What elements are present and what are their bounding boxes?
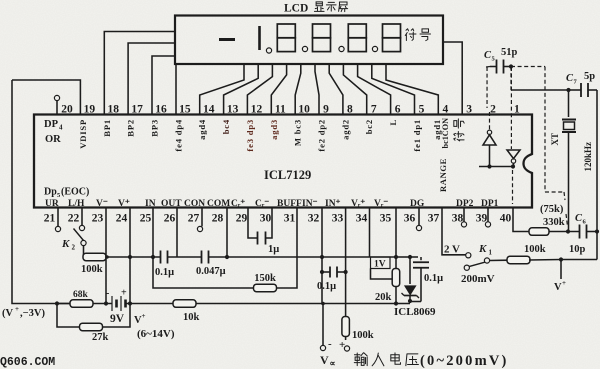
wire pin 32 down (321, 208, 323, 304)
svg-text:37: 37 (428, 213, 440, 225)
svg-text:120kHz: 120kHz (583, 142, 593, 172)
svg-text:1: 1 (514, 104, 520, 116)
svg-text:24: 24 (116, 213, 128, 225)
svg-text:BP3: BP3 (150, 119, 160, 137)
svg-text:BUFF: BUFF (277, 199, 302, 209)
svg-text:IN⁻: IN⁻ (302, 199, 318, 209)
svg-text:(V: (V (2, 308, 13, 319)
junction crystal bottom (566, 229, 570, 233)
wire LCD fan to pin 8 (329, 64, 343, 115)
wire LCD left stub to pin 17 (128, 43, 175, 115)
svg-text:29: 29 (236, 213, 248, 225)
svg-text:IN⁺: IN⁺ (325, 199, 341, 209)
svg-text:2: 2 (72, 244, 76, 252)
switch K2 blade (74, 229, 84, 241)
svg-text:fe3 dp3: fe3 dp3 (245, 119, 255, 152)
svg-text:100k: 100k (352, 330, 374, 341)
junction V-,-3V node (55, 301, 59, 305)
wire LCD fan to pin 6 (358, 64, 391, 115)
wire 27k to V+ (103, 304, 130, 328)
LCD decimal point 1 (266, 48, 271, 53)
svg-text:K: K (478, 243, 487, 255)
svg-text:100k: 100k (81, 264, 103, 275)
junction right rail C6 (595, 229, 599, 233)
junction pin28 bus (225, 255, 229, 259)
capacitor C7 5p (580, 83, 582, 97)
wire left rail to V+,-3V node (12, 80, 57, 304)
svg-text:agd3: agd3 (269, 119, 279, 140)
resistor 100k (pin23) (84, 256, 107, 258)
wire rail to 10k (130, 303, 173, 305)
junction pin32 cap (320, 270, 324, 274)
resistor 27k (80, 323, 103, 331)
svg-text:23: 23 (92, 213, 104, 225)
pin 3 signal label 符号 rotated (454, 131, 464, 140)
resistor 68k (57, 303, 70, 305)
battery 9V plates (111, 296, 113, 311)
resistor 10k (173, 300, 196, 308)
svg-text:68k: 68k (73, 290, 89, 300)
switch K2 fixed contact (79, 225, 84, 230)
wire LCD right stub to pin 3 (443, 42, 462, 115)
svg-text:40: 40 (500, 213, 512, 225)
wire pin 19 VDISP up and left (12, 80, 80, 115)
svg-text:RANGE: RANGE (438, 158, 448, 192)
terminal circle Vin minus (322, 304, 324, 346)
svg-text:+: + (339, 339, 345, 351)
dash-dot wire C5 left to pin 2 (486, 66, 490, 69)
svg-text:M bc3: M bc3 (293, 119, 303, 146)
svg-text:(6~14V): (6~14V) (137, 328, 175, 340)
wire LCD fan to pin 7 (343, 64, 366, 115)
wire 20k bottom (395, 287, 397, 304)
svg-text:1: 1 (489, 249, 493, 257)
junction pin23 bus (105, 255, 109, 259)
wire right rail (596, 90, 598, 260)
wire 27k loop (57, 304, 79, 328)
LCD seven-segment digit 8 number 1 (277, 24, 295, 38)
junction V- rail pin23 (104, 301, 108, 305)
junction 20k bottom (394, 301, 398, 305)
wire 100k to V+ node (529, 259, 561, 262)
svg-text:27k: 27k (92, 332, 109, 343)
annotation box 1V (371, 257, 391, 269)
svg-text:0.047μ: 0.047μ (196, 266, 226, 277)
LCD digit one segment (258, 26, 261, 50)
svg-text:OUT: OUT (161, 199, 182, 209)
junction pin33 cap (344, 270, 348, 274)
switch K2 moving contact (81, 240, 86, 245)
svg-text:2 V: 2 V (444, 244, 460, 256)
wire zener top (409, 257, 411, 284)
LCD minus sign segment (219, 38, 235, 41)
terminal circle pin 21 (55, 226, 60, 231)
svg-text:+: + (121, 288, 127, 299)
resistor 100k (K1) (507, 256, 530, 264)
capacitor 1u (257, 232, 259, 245)
svg-text:31: 31 (284, 213, 296, 225)
LCD decimal point 4 (372, 46, 377, 51)
svg-text:-: - (106, 288, 109, 299)
wire bus segment D (322, 256, 396, 258)
terminal circle Vin plus (344, 346, 349, 351)
svg-text:0.1μ: 0.1μ (155, 267, 174, 278)
wire pin 40 to 330k (513, 208, 529, 232)
wire rail to cap end (396, 303, 410, 305)
resistor 330k (529, 228, 549, 236)
wire rail battery minus (57, 303, 112, 305)
svg-text:32: 32 (308, 213, 320, 225)
svg-text:ICL8069: ICL8069 (394, 306, 436, 318)
svg-text:28: 28 (212, 213, 224, 225)
dash-dot wire pin 2 to A1 (486, 67, 488, 108)
svg-text:1V: 1V (374, 260, 386, 270)
wire pin 21 stub (57, 208, 59, 227)
wire bus segment A (130, 256, 161, 258)
svg-text:20: 20 (61, 104, 73, 116)
svg-text:UR: UR (45, 199, 59, 209)
wire pin 26 stub (176, 208, 178, 258)
svg-text:Cᵣ⁺: Cᵣ⁺ (231, 199, 245, 209)
wire pin 30 bracket (266, 208, 272, 239)
zener diode ICL8069 (405, 286, 416, 295)
svg-text:∝: ∝ (330, 358, 336, 368)
label input voltage 输入电压 0-200mV (354, 353, 367, 366)
svg-text:Cᵣ⁻: Cᵣ⁻ (255, 199, 269, 209)
svg-text:DP2: DP2 (456, 199, 474, 209)
svg-text:17: 17 (131, 104, 143, 116)
LCD seven-segment digit 8 number 2 (313, 24, 331, 38)
junction battery plus (128, 301, 132, 305)
capacitor 0.1u (ref) (420, 257, 422, 260)
crystal XT (562, 119, 576, 121)
svg-text:21: 21 (44, 213, 56, 225)
IC U1 ICL7129 package outline (34, 115, 532, 208)
junction crystal top (566, 88, 570, 92)
svg-text:Vᵣ⁺: Vᵣ⁺ (351, 199, 365, 209)
svg-text:agd4: agd4 (197, 119, 207, 140)
wire pin 27 stub (201, 208, 203, 227)
LCD seven-segment digit 8 number 4 (383, 24, 401, 38)
svg-text:VDISP: VDISP (78, 119, 88, 149)
junction Vin minus rail (321, 302, 325, 306)
wire pin 34 down (369, 208, 371, 258)
wire V+ node to right rail (561, 259, 597, 261)
wire LCD corner down to pin 15 (175, 64, 177, 115)
switch K1 pivot contact (484, 258, 489, 263)
resistor 150k (254, 284, 277, 292)
wire battery plus to junction (126, 303, 131, 305)
wire LCD left stub to pin 16 (152, 56, 175, 115)
svg-text:XT: XT (550, 133, 560, 146)
svg-text:LCD: LCD (284, 3, 308, 15)
svg-text:bc2: bc2 (364, 119, 374, 134)
svg-text:-: - (328, 338, 332, 350)
svg-text:Q606.COM: Q606.COM (0, 356, 55, 369)
wire pin 36 stub (418, 208, 420, 226)
svg-text:9V: 9V (110, 313, 125, 325)
LCD decimal point 3 (339, 46, 344, 51)
svg-text:fe1 dp1: fe1 dp1 (412, 119, 422, 152)
wire LCD fan to pin 4 (386, 64, 438, 115)
svg-text:35: 35 (380, 213, 392, 225)
capacitor C6 10p (579, 225, 581, 239)
wire pin 38 stub (463, 208, 465, 222)
svg-text:,−3V): ,−3V) (20, 308, 45, 319)
wire bus segment F (410, 256, 418, 258)
svg-text:12: 12 (251, 104, 263, 116)
svg-text:OR: OR (45, 134, 61, 145)
wire pin 23 down to battery minus (105, 208, 107, 304)
svg-text:13: 13 (227, 104, 239, 116)
wire bus segment B (168, 256, 202, 258)
capacitor 0.047u (pins26-28) (201, 251, 203, 264)
svg-text:14: 14 (203, 104, 215, 116)
LCD sign annunciator 符号 (405, 29, 416, 41)
svg-text:27: 27 (188, 213, 200, 225)
svg-text:9: 9 (323, 104, 329, 116)
svg-text:10: 10 (298, 104, 310, 116)
svg-text:+: + (142, 312, 146, 320)
svg-text:K: K (61, 238, 70, 250)
dash-dot wire C5 to line (510, 67, 512, 91)
wire 330k to C6 (549, 231, 579, 233)
svg-text:7: 7 (371, 104, 377, 116)
svg-text:200mV: 200mV (461, 273, 495, 285)
svg-text:Vᵣ⁻: Vᵣ⁻ (374, 199, 388, 209)
wire 150k to pin 31 (276, 208, 297, 289)
junction C5 right (509, 64, 513, 68)
wire pin 24 down (129, 208, 131, 304)
svg-text:100k: 100k (524, 244, 546, 255)
switch K1 blade (469, 262, 485, 266)
comparator A2 triangle down (507, 150, 520, 159)
terminal circle at pin 20 (56, 101, 58, 115)
wire rail to 20k bottom (323, 303, 396, 305)
junction zener top (408, 255, 412, 259)
svg-text:330k: 330k (543, 217, 565, 228)
svg-text:3: 3 (466, 104, 472, 116)
svg-text:16: 16 (155, 104, 167, 116)
svg-text:(EOC): (EOC) (61, 187, 89, 198)
wire bus segment C (209, 256, 323, 258)
svg-text:51p: 51p (501, 47, 518, 58)
svg-text:Dp: Dp (44, 187, 57, 198)
wire C7 left (569, 89, 582, 91)
annotation leader 1V (371, 269, 394, 280)
wire osc line (511, 89, 569, 91)
wire LCD fan to pin 13 (224, 64, 259, 115)
junction pin25 bus (151, 255, 155, 259)
wire pin25 down to 150k line (153, 257, 254, 288)
wire 20k top (395, 257, 397, 269)
wire crystal bottom lead (568, 132, 570, 232)
wire LCD fan to pin 14 (200, 64, 244, 115)
resistor 100k vertical (342, 317, 350, 337)
svg-text:33: 33 (332, 213, 344, 225)
junction pin32 bus (320, 255, 324, 259)
wire zener bottom (409, 296, 411, 302)
svg-text:20k: 20k (375, 292, 392, 303)
svg-text:L: L (388, 119, 398, 126)
capacitor 0.1u (pins25-26) (160, 251, 162, 264)
svg-text:1μ: 1μ (268, 244, 279, 255)
junction pin24 bus (128, 255, 132, 259)
buffer A1 triangle up (487, 130, 491, 134)
svg-text:ICL7129: ICL7129 (264, 168, 311, 182)
svg-text:4: 4 (442, 104, 448, 116)
svg-text:fe4 dp4: fe4 dp4 (173, 119, 183, 152)
svg-text:bc4: bc4 (221, 119, 231, 134)
svg-text:IN: IN (145, 199, 156, 209)
svg-text:DP: DP (44, 119, 59, 130)
svg-text:0.1μ: 0.1μ (424, 273, 443, 284)
wire V+ arrow (560, 260, 562, 280)
dash-dot wire below A2 (512, 170, 514, 204)
wire C6 to right rail (587, 231, 598, 233)
svg-text:0.1μ: 0.1μ (317, 281, 336, 292)
switch K1 contact 200mV (464, 265, 469, 270)
wire LCD fan to pin 12 (247, 64, 272, 115)
svg-text:5p: 5p (584, 71, 595, 82)
wire pin 28 stub (226, 208, 228, 258)
dash-dot wire pin 1 to A2 (510, 67, 512, 149)
capacitor C5 51p (490, 66, 497, 68)
junction V+ node (559, 257, 563, 261)
svg-text:DP1: DP1 (481, 199, 499, 209)
capacitor 0.1u (pins32-33) (322, 271, 330, 273)
wire pin 29 bracket (248, 208, 257, 239)
LCD seven-segment digit 8 number 3 (348, 24, 366, 38)
svg-text:25: 25 (140, 213, 152, 225)
wire LCD fan to pin 5 (372, 64, 415, 115)
svg-text:+: + (15, 305, 19, 313)
LCD display panel box (175, 16, 443, 65)
terminal circle pin 27 (197, 226, 202, 231)
svg-text:34: 34 (356, 213, 368, 225)
svg-text:V: V (320, 353, 329, 367)
wire LCD fan to pin 9 (315, 64, 319, 115)
svg-text:(0~200mV): (0~200mV) (420, 353, 509, 369)
wire LCD fan to pin 11 (271, 64, 286, 115)
svg-text:36: 36 (404, 213, 416, 225)
svg-text:6: 6 (395, 104, 401, 116)
svg-text:10k: 10k (183, 312, 200, 323)
wire K1 to 100k (490, 259, 508, 261)
wire bus segment E (396, 256, 410, 258)
svg-text:19: 19 (84, 104, 96, 116)
svg-text:22: 22 (68, 213, 80, 225)
svg-text:2: 2 (490, 104, 496, 116)
svg-text:10p: 10p (569, 244, 586, 255)
svg-text:V⁺: V⁺ (118, 199, 130, 209)
svg-text:agd2: agd2 (340, 119, 350, 140)
svg-text:11: 11 (275, 104, 286, 116)
svg-text:15: 15 (179, 104, 191, 116)
dashed wire C5 to 75k (511, 66, 545, 68)
LCD decimal point 2 (302, 46, 307, 51)
svg-text:30: 30 (260, 213, 272, 225)
svg-text:DG: DG (410, 199, 425, 209)
wire pin 25 stub (152, 208, 154, 258)
svg-text:bc1CON: bc1CON (441, 118, 450, 149)
svg-text:(75k): (75k) (540, 204, 564, 215)
resistor 20k (392, 269, 400, 287)
svg-text:+: + (562, 279, 566, 287)
svg-text:18: 18 (108, 104, 120, 116)
svg-text:4: 4 (59, 124, 63, 132)
wire K2 to resistor 100k (83, 246, 86, 257)
svg-text:5: 5 (419, 104, 425, 116)
wire A1-A2 common (479, 166, 514, 168)
terminal circle pin 39 (485, 222, 490, 227)
svg-text:150k: 150k (254, 273, 276, 284)
wire pin 35 down (395, 208, 397, 258)
wire pin 37 to 2V contact (442, 208, 466, 255)
wire pin 22 stub (81, 208, 83, 226)
wire pin 33 down (345, 208, 347, 341)
svg-text:26: 26 (164, 213, 176, 225)
wire rail 10k to Vin minus (196, 303, 323, 305)
svg-text:BP1: BP1 (102, 119, 112, 137)
wire pin 39 stub (487, 208, 489, 222)
wire LCD left stub to pin 18 (104, 32, 175, 115)
svg-text:BP2: BP2 (126, 119, 136, 137)
svg-text:V: V (554, 282, 562, 293)
wire crystal top lead (568, 90, 570, 117)
svg-text:8: 8 (347, 104, 353, 116)
junction zener bottom (408, 299, 412, 303)
terminal circle pin 38 (461, 222, 466, 227)
svg-text:fe2 dp2: fe2 dp2 (317, 119, 327, 152)
wire bus 100k to pin24 (107, 256, 130, 258)
wire LCD fan to pin 10 (295, 64, 301, 115)
junction 20k top (394, 255, 398, 259)
switch K1 contact 2V (466, 253, 471, 258)
terminal circle pin 36 (416, 225, 421, 230)
